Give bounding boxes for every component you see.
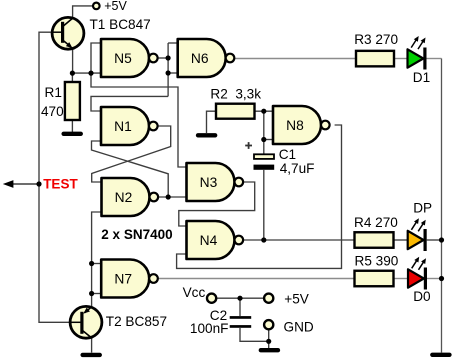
arrows D1 <box>411 38 417 48</box>
svg-text:TEST: TEST <box>43 177 78 192</box>
svg-text:D0: D0 <box>413 289 431 304</box>
wire C2 to ground node <box>240 328 269 341</box>
nand gate N1 <box>101 107 158 145</box>
svg-text:N1: N1 <box>114 119 132 134</box>
resistor R2 <box>216 104 255 119</box>
ground below R2 <box>196 133 218 137</box>
arrows DP <box>411 220 417 230</box>
wire N5 output to N6 inputs <box>158 57 169 59</box>
wire TEST rail (T1 base to T2 base) <box>39 32 82 322</box>
wire N7 output to R5 <box>158 278 355 280</box>
svg-text:R4 270: R4 270 <box>354 215 398 230</box>
wire Vcc to +5V terminal <box>216 297 264 299</box>
arrows D0 <box>412 259 418 269</box>
wire R2 to ground <box>207 111 217 133</box>
wire T1 emitter to node <box>72 48 74 73</box>
wire R5 to D0 <box>394 278 409 280</box>
nand gate N6 <box>178 39 235 77</box>
wire T2 collector to ground <box>91 338 93 353</box>
wire C1 to N4 output <box>263 170 265 240</box>
nand gate N8 <box>273 106 330 144</box>
node R2/N8 upper <box>261 109 266 114</box>
wire +5V junction to C2 <box>239 298 241 316</box>
nand gate N5 <box>101 39 158 77</box>
wire DP to right rail <box>427 239 442 241</box>
resistor R3 <box>356 51 394 67</box>
svg-text:N7: N7 <box>114 272 132 287</box>
svg-text:2 x SN7400: 2 x SN7400 <box>101 227 172 242</box>
node N8 lower input <box>261 137 266 142</box>
node D0 rail <box>439 276 444 281</box>
capacitor C1 <box>245 142 274 170</box>
LED D0 <box>408 269 424 287</box>
wire R1 to ground <box>71 120 73 132</box>
wire N2 output to N1 lower input <box>92 141 169 197</box>
capacitor C2 <box>230 316 252 328</box>
wire N4 output to R4 <box>243 239 354 241</box>
wire node to N5 lower input <box>73 72 101 74</box>
wire N7 lower input stub <box>92 293 102 295</box>
wire N2 output to N3 lower input <box>158 196 186 198</box>
transistor T1 <box>52 17 84 49</box>
svg-text:N8: N8 <box>286 118 304 133</box>
node N5 inputs <box>88 71 93 76</box>
wire node to N3 upper input <box>91 73 187 167</box>
svg-text:T2 BC857: T2 BC857 <box>106 314 167 329</box>
wire +5V to T1 collector <box>73 6 93 18</box>
svg-text:+5V: +5V <box>104 0 127 13</box>
ground bottom <box>259 348 281 352</box>
wire N7 upper input stub <box>92 263 102 265</box>
svg-text:C1: C1 <box>279 147 296 162</box>
LED DP <box>408 231 424 249</box>
svg-text:N2: N2 <box>115 190 133 205</box>
LED D1 <box>408 49 424 67</box>
TEST arrow <box>3 180 39 188</box>
node TEST <box>36 181 41 186</box>
svg-text:Vcc: Vcc <box>183 285 206 300</box>
wire GND terminal to ground <box>268 329 270 348</box>
svg-text:100nF: 100nF <box>190 321 229 336</box>
wire R2 to N8 upper input <box>255 110 274 112</box>
svg-text:470: 470 <box>41 104 64 119</box>
node N7 upper input <box>89 261 94 266</box>
right rail to ground <box>441 59 443 353</box>
wire D0 to right rail <box>427 278 442 280</box>
wire node up to N5 upper input <box>91 43 101 73</box>
svg-text:DP: DP <box>413 201 432 216</box>
node ground junction <box>266 339 271 344</box>
resistor R1 <box>65 82 80 120</box>
wire N3 output to N4 upper input <box>179 182 255 226</box>
terminal +5V bottom <box>264 294 273 303</box>
nand gate N7 <box>101 260 158 298</box>
svg-text:N6: N6 <box>191 51 209 66</box>
node N6 lower input <box>166 70 171 75</box>
nand gate N4 <box>187 221 244 259</box>
svg-text:N3: N3 <box>200 175 218 190</box>
svg-text:4,7uF: 4,7uF <box>280 161 315 176</box>
ground below R1 <box>61 132 82 136</box>
nand gate N3 <box>187 163 244 201</box>
wire N8 input tie-down to C1 <box>263 111 265 154</box>
terminal +5V top <box>93 3 100 10</box>
svg-text:T1 BC847: T1 BC847 <box>90 17 151 32</box>
wire N2 lower input to N7/T2 rail <box>92 212 102 306</box>
svg-text:R5 390: R5 390 <box>355 253 399 268</box>
wire R3 to D1 <box>394 58 408 60</box>
wire N5 output to N1 upper input <box>91 96 168 111</box>
node T1 emitter <box>70 71 75 76</box>
svg-text:R3 270: R3 270 <box>354 32 398 47</box>
resistor R4 <box>355 232 394 248</box>
node DP rail <box>439 237 444 242</box>
svg-text:GND: GND <box>284 319 314 334</box>
wire N1 output to N2 upper input <box>92 126 171 182</box>
svg-text:N4: N4 <box>200 233 218 248</box>
node N7 lower input <box>89 291 94 296</box>
transistor T2 <box>70 306 102 338</box>
node N2 output <box>166 194 171 199</box>
svg-text:R2 3,3k: R2 3,3k <box>210 86 261 101</box>
svg-text:D1: D1 <box>413 70 430 85</box>
wire D1 to right rail <box>427 58 442 60</box>
ground right rail <box>430 353 452 357</box>
svg-text:N5: N5 <box>114 51 132 66</box>
node C1 to N4 output <box>261 237 266 242</box>
resistor R5 <box>355 271 394 287</box>
node C2 junction <box>237 296 242 301</box>
ground below T2 <box>80 353 102 357</box>
wire N8 output to N4 lower input <box>177 125 342 268</box>
svg-text:+5V: +5V <box>284 291 309 306</box>
wire node to R1 <box>71 73 73 82</box>
wire R4 to DP <box>394 239 408 241</box>
wire N6 output to R3 <box>234 58 356 60</box>
terminal Vcc <box>207 294 216 303</box>
svg-text:R1: R1 <box>45 85 62 100</box>
terminal GND <box>264 320 273 329</box>
nand gate N2 <box>102 178 159 216</box>
node N5 out / N6 upper <box>166 55 171 60</box>
